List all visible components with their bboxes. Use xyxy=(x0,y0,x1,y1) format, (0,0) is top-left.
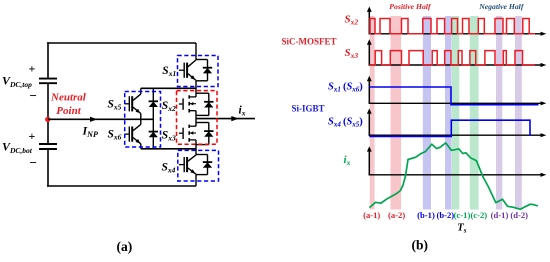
svg-text:(a-2): (a-2) xyxy=(388,210,405,220)
wire neutral to clamp branch with I_NP arrow xyxy=(48,117,153,122)
transistor Q S_x2 (SiC-MOSFET) xyxy=(179,95,196,112)
svg-text:(c-1): (c-1) xyxy=(454,210,471,220)
diode D3 (S_x3) xyxy=(204,123,213,145)
blue dashed box around S_x4 xyxy=(178,150,219,181)
svg-text:−: − xyxy=(30,88,37,103)
axis i_x row xyxy=(367,146,546,177)
diode D6 (S_x6) xyxy=(149,119,158,149)
wire Sx4 cell bottom xyxy=(196,174,208,176)
waveform S_x1 (S_x6) gate (blue) xyxy=(369,87,538,105)
wire Sx3 cell top xyxy=(196,122,209,124)
shaded interval band (c-2) xyxy=(470,16,479,210)
blue dashed box around S_x1 xyxy=(178,56,219,87)
wire node B horizontal xyxy=(141,148,196,150)
transistor Q S_x5 (Si-IGBT clamp) xyxy=(125,88,141,119)
svg-text:(d-1): (d-1) xyxy=(491,210,509,220)
transistor Q S_x4 (Si-IGBT) xyxy=(179,155,196,174)
svg-text:Neutral: Neutral xyxy=(50,91,87,103)
wire top rail xyxy=(47,42,196,44)
shaded interval band (b-1) xyxy=(423,16,431,210)
transistor Q S_x6 (Si-IGBT clamp) xyxy=(125,119,141,149)
wire left bus middle xyxy=(47,84,49,143)
red dashed box around S_x2 and S_x3 xyxy=(177,91,218,145)
svg-text:Si-IGBT: Si-IGBT xyxy=(292,103,325,113)
shaded interval band (c-1) xyxy=(452,16,460,210)
wire main branch Sx2 to Sx3 (output node) xyxy=(195,111,197,127)
wire bottom rail xyxy=(47,185,196,187)
waveform i_x phase current (green) xyxy=(369,143,537,209)
wire Sx2 cell top xyxy=(196,92,209,94)
wire Sx1 cell bottom xyxy=(196,80,208,82)
waveform S_x3 gate pulses (red) xyxy=(369,51,535,65)
shaded interval band (b-2) xyxy=(445,16,452,210)
svg-text:+: + xyxy=(29,129,36,143)
wire node A horizontal xyxy=(141,87,196,89)
svg-text:SiC-MOSFET: SiC-MOSFET xyxy=(282,37,337,47)
wire main branch lower xyxy=(195,175,197,186)
svg-text:(b-2): (b-2) xyxy=(436,210,454,220)
shaded interval band (a-2) xyxy=(391,16,402,210)
diode D4 (S_x4) xyxy=(203,155,212,175)
node neutral point xyxy=(45,117,50,122)
axis S_x4(S_x5) row xyxy=(367,108,546,137)
capacitor C_bot (V_DC,bot) xyxy=(39,144,57,149)
axis S_x2 row xyxy=(367,7,546,36)
waveform S_x2 gate pulses (red) xyxy=(369,19,535,34)
blue dashed box around S_x5 and S_x6 xyxy=(125,92,161,148)
wire main branch Sx1 to Sx2 xyxy=(195,81,197,97)
svg-text:(c-2): (c-2) xyxy=(470,210,487,220)
svg-text:(a): (a) xyxy=(117,239,133,254)
svg-text:Positive Half: Positive Half xyxy=(389,2,432,11)
svg-text:(b): (b) xyxy=(412,238,429,253)
svg-text:Negative Half: Negative Half xyxy=(478,2,525,11)
transistor Q S_x1 (Si-IGBT) xyxy=(179,60,196,81)
svg-text:Point: Point xyxy=(56,105,81,117)
wire left bus upper xyxy=(47,42,49,78)
svg-text:−: − xyxy=(30,155,37,170)
svg-text:(a-1): (a-1) xyxy=(363,210,380,220)
wire left bus lower xyxy=(47,150,49,187)
diode D1 (S_x1) xyxy=(203,60,212,81)
svg-text:(d-2): (d-2) xyxy=(510,210,528,220)
shaded interval band (d-1) xyxy=(496,16,502,210)
wire main branch Sx3 to Sx4 xyxy=(195,140,197,155)
wire Sx1 cell top xyxy=(196,59,208,61)
capacitor C_top (V_DC,top) xyxy=(39,79,57,84)
wire main branch upper xyxy=(195,43,197,60)
axis S_x1(S_x6) row xyxy=(367,76,546,106)
svg-text:+: + xyxy=(29,62,36,76)
waveform S_x4 (S_x5) gate (blue) xyxy=(369,120,530,136)
svg-text:(b-1): (b-1) xyxy=(417,210,435,220)
shaded interval band (d-2) xyxy=(515,16,522,210)
diode D5 (S_x5) xyxy=(149,88,158,119)
transistor Q S_x3 (SiC-MOSFET) xyxy=(179,125,196,142)
wire output i_x xyxy=(196,116,255,121)
shaded interval band (a-1) xyxy=(370,16,375,210)
diode D2 (S_x2) xyxy=(204,93,213,115)
axis S_x3 row xyxy=(367,39,546,67)
wire Sx2 cell bottom xyxy=(196,114,209,116)
wire Sx3 cell bottom xyxy=(196,144,209,146)
wire Sx4 cell top xyxy=(196,154,208,156)
